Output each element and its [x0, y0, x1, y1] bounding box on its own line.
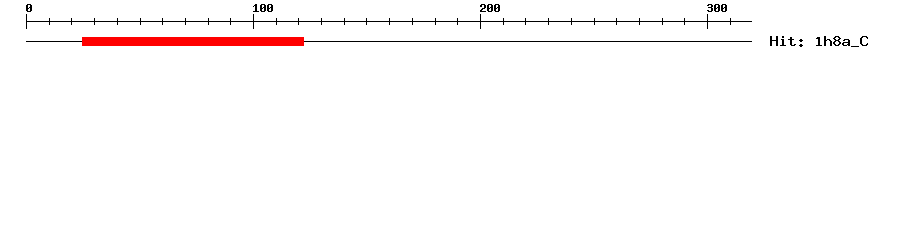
- background: [0, 0, 900, 60]
- major tick at 0: [26, 14, 27, 29]
- ruler label "100": [253, 4, 273, 12]
- ruler label "0": [26, 4, 32, 12]
- hit name text "Hit: 1h8a_C": [770, 36, 868, 47]
- aligned-region red bar: [82, 37, 304, 46]
- major tick at 300: [707, 14, 708, 29]
- minor ticks every 10 residues: [49, 18, 50, 25]
- major tick at 200: [480, 14, 481, 29]
- ruler label "200": [480, 4, 500, 12]
- ruler axis line: [26, 21, 752, 22]
- hit sequence baseline: [26, 41, 752, 42]
- major tick at 100: [253, 14, 254, 29]
- ruler label "300": [707, 4, 727, 12]
